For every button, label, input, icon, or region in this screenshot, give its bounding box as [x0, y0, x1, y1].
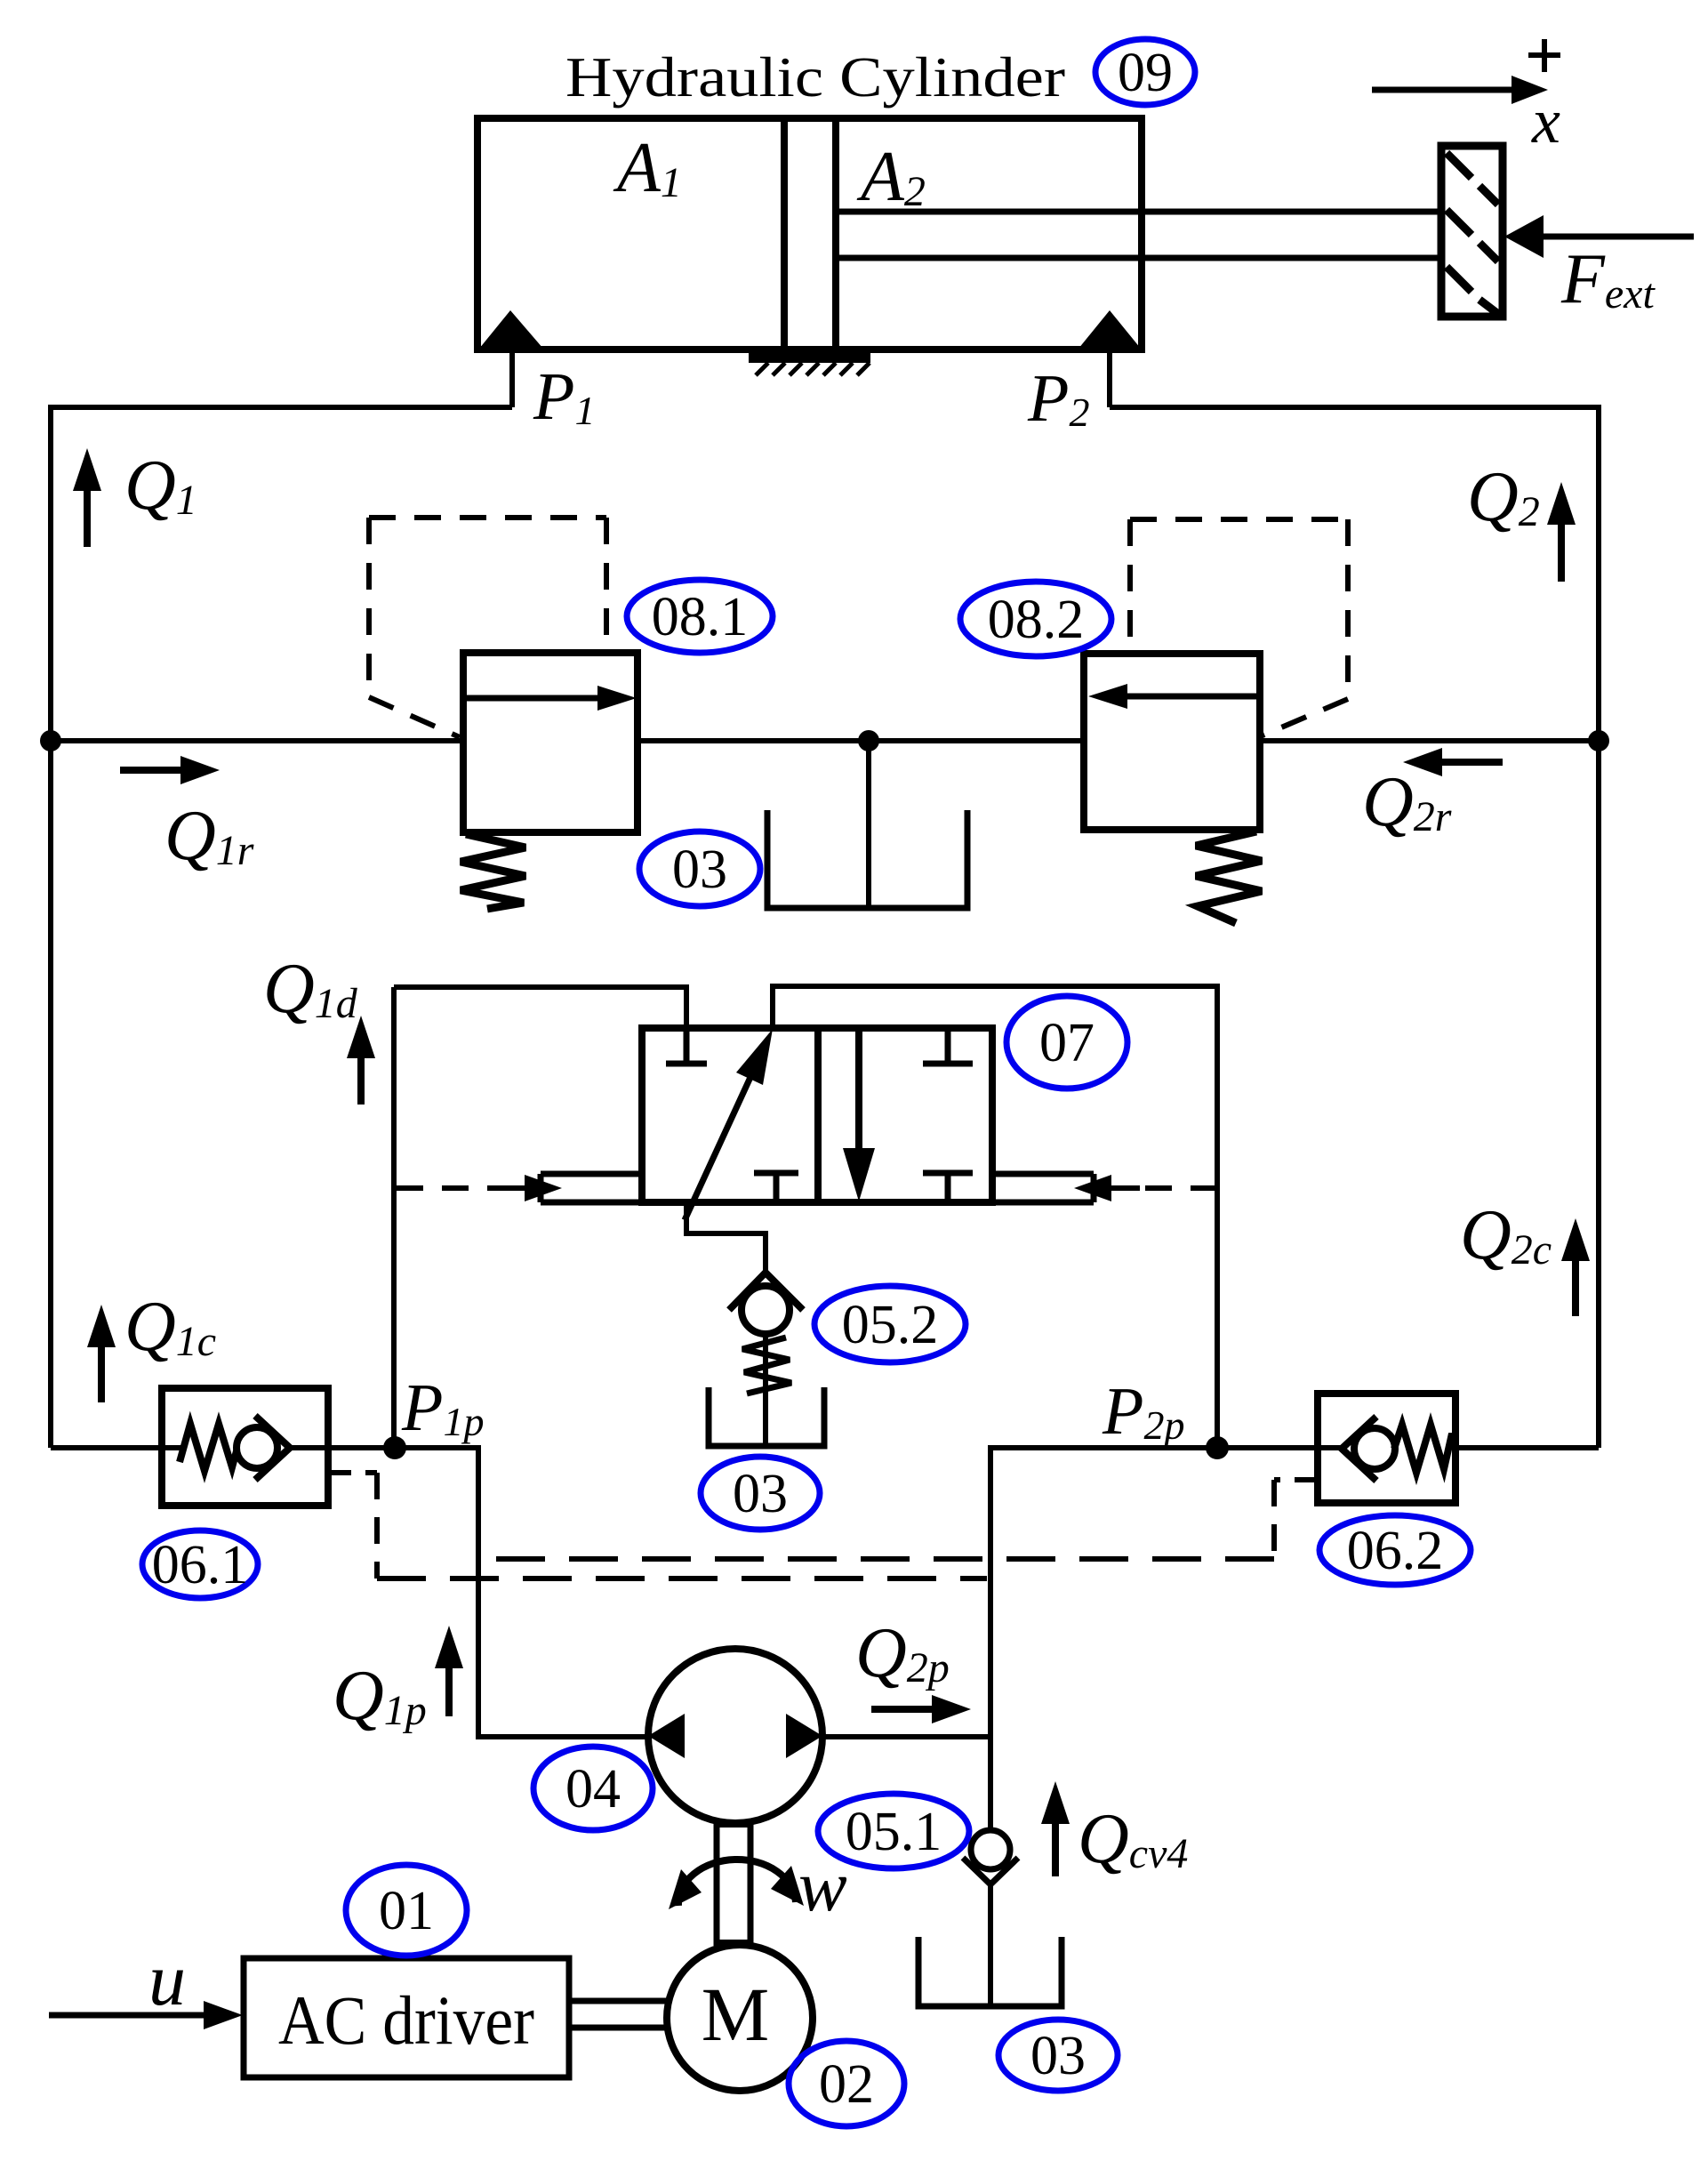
svg-text:04: 04 [565, 1759, 621, 1820]
label ellipse 08.1 [627, 580, 773, 653]
pilot check valve 06.1 poppet [237, 1416, 290, 1480]
cylinder port P2 triangle [1079, 310, 1141, 349]
driver motor shaft [569, 2001, 669, 2028]
tank 03 bottom right [918, 1937, 1062, 2006]
svg-text:06.2: 06.2 [1347, 1521, 1444, 1581]
wire 06.1 to P1p [286, 1445, 478, 1450]
svg-text:08.1: 08.1 [652, 587, 749, 647]
relief valve 08.1 [463, 653, 637, 832]
label ellipse 06.2 [1319, 1515, 1471, 1585]
wire center tank stem [866, 741, 871, 908]
relief valve 08.2 pilot dashed line [1130, 519, 1348, 735]
valve 07 left pilot port [541, 1174, 642, 1202]
piston [784, 118, 836, 349]
wire 05.1 stem [988, 1884, 993, 2006]
wire valve bottom port to check valve 05.2 [686, 1202, 766, 1273]
pump motor shaft [717, 1823, 750, 1946]
svg-text:02: 02 [819, 2054, 874, 2115]
tank 03 under 05.2 [709, 1387, 824, 1446]
arrow Q2p [871, 1695, 971, 1723]
check valve 05.2 [729, 1273, 803, 1334]
svg-text:08.2: 08.2 [988, 590, 1085, 650]
valve 07 down flow arrow [843, 1029, 875, 1201]
pump 04 [648, 1649, 822, 1823]
wire P2p to pump and 05.1 [990, 1448, 1217, 1830]
pilot check valve 06.1 box [162, 1388, 328, 1506]
svg-text:05.1: 05.1 [846, 1802, 942, 1862]
wire 06.2 to right rail [1455, 1445, 1599, 1450]
label ellipse 02 [789, 2041, 904, 2126]
wire valve left branch vertical [391, 987, 397, 1448]
arrow Q2c [1561, 1218, 1590, 1316]
node right [1588, 730, 1609, 751]
svg-text:03: 03 [1030, 2026, 1086, 2086]
wire relief rail middle [637, 738, 1084, 743]
AC driver 01 [244, 1958, 569, 2077]
pilot dashed line of 06.1 [328, 1473, 987, 1579]
piston rod [836, 212, 1443, 258]
relief valve 08.1 spring [461, 834, 525, 909]
check valve 05.1 [963, 1830, 1018, 1884]
valve 07 blocked port top-right [923, 1028, 973, 1064]
svg-text:06.1: 06.1 [152, 1535, 249, 1595]
wire relief rail left [51, 738, 463, 743]
label ellipse 05.1 [818, 1794, 969, 1868]
label ellipse 04 [533, 1747, 653, 1830]
wire top right rail [1110, 407, 1599, 1448]
arrow Q2 [1547, 482, 1576, 582]
rotation arrow w [669, 1860, 804, 1909]
svg-text:09: 09 [1118, 43, 1173, 103]
wire 05.2 stem [763, 1332, 768, 1446]
arrow Q1p [435, 1626, 463, 1716]
pilot check valve 06.2 box [1318, 1394, 1455, 1503]
label ellipse 01 [346, 1865, 467, 1956]
valve 07 blocked port bottom-left square [754, 1173, 798, 1202]
cylinder port P1 triangle [479, 310, 543, 349]
valve 07 blocked port bottom-right [923, 1173, 973, 1202]
wire P2 port down [1107, 347, 1112, 407]
relief valve 08.2 [1084, 654, 1260, 830]
wire valve top-right rail [773, 986, 1217, 1448]
wire relief rail right [1260, 738, 1599, 743]
valve 07 right pilot port [992, 1174, 1094, 1202]
arrow u input [49, 2001, 243, 2029]
arrow Q1r [120, 756, 220, 784]
label ellipse 03 bottom [998, 2020, 1118, 2091]
node P1p [383, 1436, 406, 1459]
svg-text:w: w [798, 1845, 847, 1926]
valve 07 blocked port top-left [666, 1028, 707, 1064]
plus sign [1528, 39, 1560, 72]
wire left main to 06.1 [51, 1445, 181, 1450]
ground anchor under cylinder [749, 351, 870, 375]
wire valve top-left rail [394, 987, 686, 1028]
directional valve 07 body [642, 1028, 992, 1202]
arrow Fext [1504, 215, 1694, 258]
svg-text:03: 03 [672, 839, 727, 900]
svg-text:u: u [148, 1939, 186, 2021]
valve 07 left pilot dashed arrow [397, 1175, 562, 1201]
svg-text:07: 07 [1039, 1013, 1095, 1073]
svg-text:05.2: 05.2 [842, 1295, 939, 1355]
svg-text:01: 01 [379, 1881, 434, 1941]
hydraulic cylinder body [477, 118, 1142, 349]
pilot check valve 06.2 poppet [1342, 1417, 1395, 1481]
label ellipse 03 center [639, 831, 760, 906]
label ellipse 06.1 [142, 1530, 258, 1598]
node P2p [1206, 1436, 1229, 1459]
pilot dashed line of 06.2 [482, 1480, 1318, 1559]
load block [1441, 146, 1503, 317]
relief valve 08.1 pilot dashed line [369, 518, 606, 737]
wire pump right port [822, 1734, 990, 1739]
label ellipse 07 [1006, 996, 1127, 1089]
node center [858, 730, 879, 751]
check valve 05.2 spring [742, 1338, 791, 1394]
arrow Q2r [1403, 748, 1503, 776]
relief valve 08.2 spring [1196, 831, 1262, 923]
label ellipse 09 [1095, 39, 1195, 105]
wire P1 port down [509, 347, 515, 407]
tank 03 center [767, 810, 967, 908]
arrow Q1c [87, 1305, 116, 1402]
svg-text:Hydraulic Cylinder: Hydraulic Cylinder [565, 45, 1065, 108]
svg-text:AC driver: AC driver [278, 1981, 534, 2059]
svg-text:03: 03 [733, 1464, 788, 1524]
node left [40, 730, 61, 751]
arrow Q1 [73, 448, 101, 547]
label ellipse 03 under 05.2 [701, 1457, 820, 1530]
pilot check valve 06.1 spring [180, 1424, 237, 1471]
valve 07 diagonal flow arrow [685, 1029, 773, 1220]
wire top left rail [51, 407, 512, 1448]
arrow x positive direction [1372, 76, 1548, 104]
pilot check valve 06.2 spring [1394, 1425, 1455, 1473]
wire P1p to pump [395, 1448, 648, 1737]
arrow Qcv4 [1041, 1781, 1070, 1876]
label ellipse 08.2 [960, 582, 1111, 656]
valve 07 right pilot dashed arrow [1074, 1175, 1217, 1201]
arrow Q1d [347, 1016, 375, 1105]
svg-text:x: x [1531, 85, 1560, 157]
svg-text:M: M [702, 1972, 769, 2057]
motor M 02 [667, 1945, 813, 2091]
wire P2p to 06.2 [1217, 1445, 1344, 1450]
label ellipse 05.2 [814, 1286, 966, 1362]
